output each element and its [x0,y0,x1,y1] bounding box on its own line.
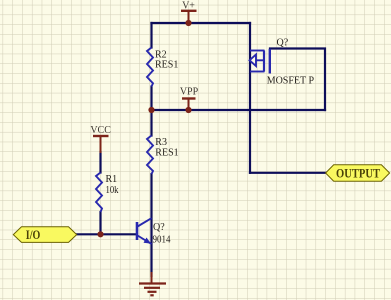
svg-text:R1: R1 [106,174,118,185]
svg-text:R3: R3 [155,137,167,148]
svg-text:MOSFET P: MOSFET P [267,76,315,87]
svg-text:V+: V+ [182,1,195,12]
svg-text:Q?: Q? [277,38,289,49]
svg-text:RES1: RES1 [155,60,178,71]
svg-text:I/O: I/O [26,228,41,242]
svg-text:10k: 10k [106,185,119,196]
svg-text:VCC: VCC [90,125,111,136]
svg-text:OUTPUT: OUTPUT [336,166,380,181]
svg-text:Q?: Q? [153,222,165,233]
svg-text:9014: 9014 [153,235,171,246]
svg-text:VPP: VPP [180,87,199,98]
svg-text:RES1: RES1 [155,148,178,159]
